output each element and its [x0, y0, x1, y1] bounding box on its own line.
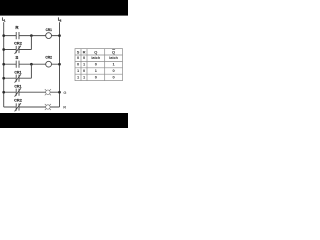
- junction dot rung2 right rail: [58, 63, 61, 66]
- svg-text:CR1: CR1: [46, 27, 53, 32]
- svg-text:0: 0: [83, 68, 85, 73]
- wire rung 3: [4, 91, 60, 93]
- svg-text:latch: latch: [109, 55, 118, 60]
- svg-text:0: 0: [77, 55, 79, 60]
- svg-text:Q: Q: [94, 50, 97, 55]
- wire rung 4: [4, 106, 60, 108]
- svg-text:0: 0: [113, 74, 115, 79]
- junction dot rung3 left rail: [2, 91, 5, 94]
- svg-text:R: R: [63, 105, 66, 110]
- junction dot rung1 branch: [30, 34, 33, 37]
- contact CR2 (NC, branch 1): [15, 46, 21, 54]
- junction dot branch1 left rail: [2, 48, 5, 51]
- svg-text:0: 0: [83, 55, 85, 60]
- pilot light R: [45, 104, 51, 110]
- svg-text:S: S: [15, 55, 18, 60]
- truth table grid: [75, 49, 123, 81]
- svg-text:G: G: [63, 90, 66, 95]
- contact R (NO): [16, 32, 19, 39]
- truth table row 3: [77, 68, 115, 73]
- overbar on Q: [112, 48, 115, 50]
- contact CR2 (NC, rung 4): [15, 103, 21, 111]
- svg-text:0: 0: [95, 62, 97, 67]
- wire branch 2: [4, 64, 32, 78]
- contact CR1 (NC, branch 2): [15, 74, 21, 82]
- truth table row 4: [77, 74, 115, 79]
- contact CR1 (NC, rung 3): [15, 88, 21, 96]
- junction dot branch2 left rail: [2, 77, 5, 80]
- junction dot rung2 left rail: [2, 63, 5, 66]
- svg-text:0: 0: [77, 62, 79, 67]
- svg-text:CR2: CR2: [45, 54, 52, 59]
- svg-text:R: R: [83, 50, 86, 55]
- pilot light G: [45, 89, 51, 95]
- svg-text:Q: Q: [112, 50, 115, 55]
- wire left rail: [3, 22, 5, 107]
- junction dot rung2 branch: [30, 63, 33, 66]
- junction dot rung1 right rail: [58, 34, 61, 37]
- svg-text:0: 0: [113, 68, 115, 73]
- wire rung 2: [4, 63, 60, 65]
- wire right rail: [59, 22, 61, 107]
- node L2 label: [58, 16, 62, 22]
- svg-text:CR2: CR2: [14, 41, 23, 46]
- node L1 label: [2, 16, 6, 22]
- svg-text:CR2: CR2: [14, 98, 23, 103]
- wire branch 1: [4, 36, 32, 50]
- truth table row 2: [77, 62, 116, 67]
- junction dot rung1 left rail: [2, 34, 5, 37]
- svg-text:latch: latch: [91, 55, 100, 60]
- contact S (NO): [16, 61, 19, 68]
- wire rung 1: [4, 35, 60, 37]
- svg-text:0: 0: [95, 74, 97, 79]
- svg-text:CR1: CR1: [14, 69, 22, 74]
- svg-text:CR1: CR1: [14, 84, 22, 89]
- coil CR2: [46, 61, 52, 67]
- truth table header: [77, 50, 115, 55]
- junction dot rung3 right rail: [58, 91, 61, 94]
- svg-text:S: S: [77, 50, 80, 55]
- truth table row 1: [77, 55, 119, 60]
- coil CR1: [46, 33, 52, 39]
